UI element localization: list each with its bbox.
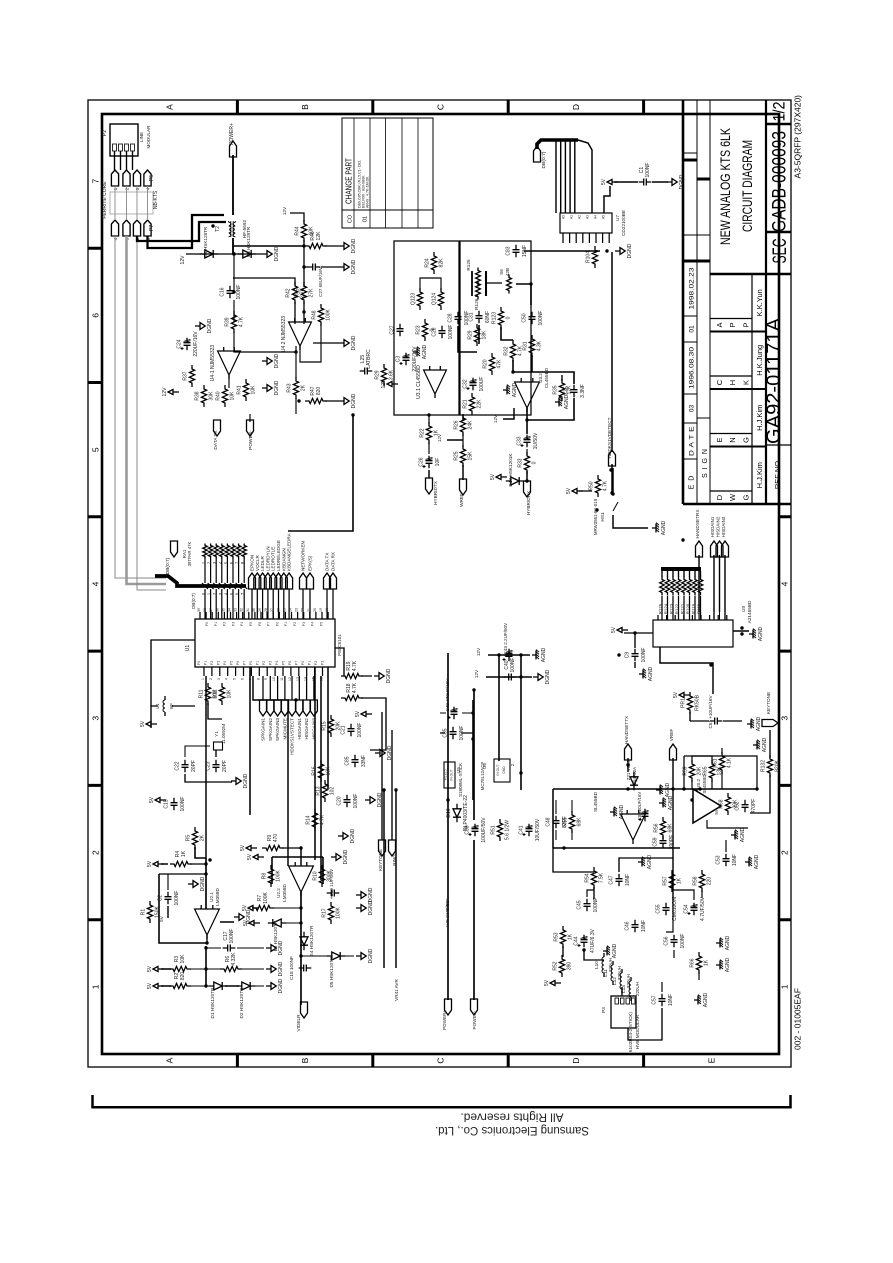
- svg-text:Samsung Electronics Co., Ltd.: Samsung Electronics Co., Ltd.: [435, 1124, 589, 1138]
- svg-text:All Rights reserved.: All Rights reserved.: [461, 1111, 564, 1125]
